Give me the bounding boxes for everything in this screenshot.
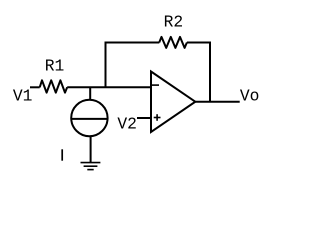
svg-text:R1: R1 [45,57,65,76]
wire op-amp output to Vo [195,101,239,103]
ground [81,163,101,170]
op-amp U1 [151,72,195,133]
wire feedback top left [105,42,160,44]
svg-text:V1: V1 [13,86,33,105]
svg-text:R2: R2 [164,13,184,32]
wire R1 to op-amp inverting input [67,86,151,88]
wire feedback right vertical [209,43,211,102]
resistor R1 [40,80,67,92]
wire current source to ground [90,136,92,162]
wire node to current source [89,87,91,100]
wire V1 to R1 [30,86,40,88]
resistor R2 [159,37,187,48]
op-amp plus pin [154,114,161,121]
current source I circle [71,100,107,136]
wire V2 to op-amp non-inverting input [137,117,151,119]
label I [61,149,63,160]
current source bar [71,118,107,120]
svg-text:Vo: Vo [240,86,260,105]
op-amp minus pin [152,84,159,86]
wire feedback top right [187,42,211,44]
svg-text:V2: V2 [117,115,137,134]
wire feedback left vertical [105,43,107,88]
